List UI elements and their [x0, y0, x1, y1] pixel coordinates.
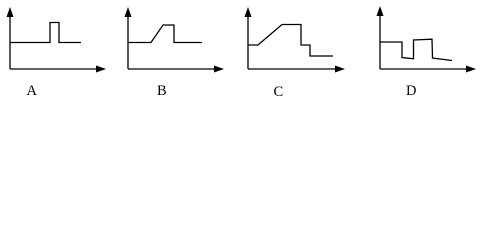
graph A waveform [10, 23, 81, 43]
graph B x-axis [128, 68, 216, 70]
svg-text:C: C [274, 84, 284, 100]
graph D x-axis [380, 68, 468, 70]
graph D waveform [380, 39, 452, 60]
graph A y-axis [9, 14, 11, 69]
graph C y-axis arrowhead [245, 7, 252, 17]
graph B y-axis arrowhead [125, 7, 132, 17]
svg-text:A: A [27, 83, 38, 99]
graph B y-axis [127, 14, 129, 69]
graph A y-axis arrowhead [7, 7, 14, 17]
svg-text:B: B [157, 83, 167, 99]
graph D x-axis arrowhead [466, 66, 476, 73]
graph C waveform [248, 25, 333, 57]
graph C y-axis [247, 14, 249, 69]
graph C x-axis arrowhead [335, 66, 345, 73]
graph C x-axis [248, 68, 337, 70]
graph B x-axis arrowhead [214, 66, 224, 73]
graph A x-axis [10, 68, 98, 70]
graph D y-axis [379, 13, 381, 69]
graph B waveform [128, 25, 202, 43]
graph A x-axis arrowhead [96, 66, 106, 73]
graph D y-axis arrowhead [377, 6, 384, 16]
svg-text:D: D [406, 83, 416, 99]
